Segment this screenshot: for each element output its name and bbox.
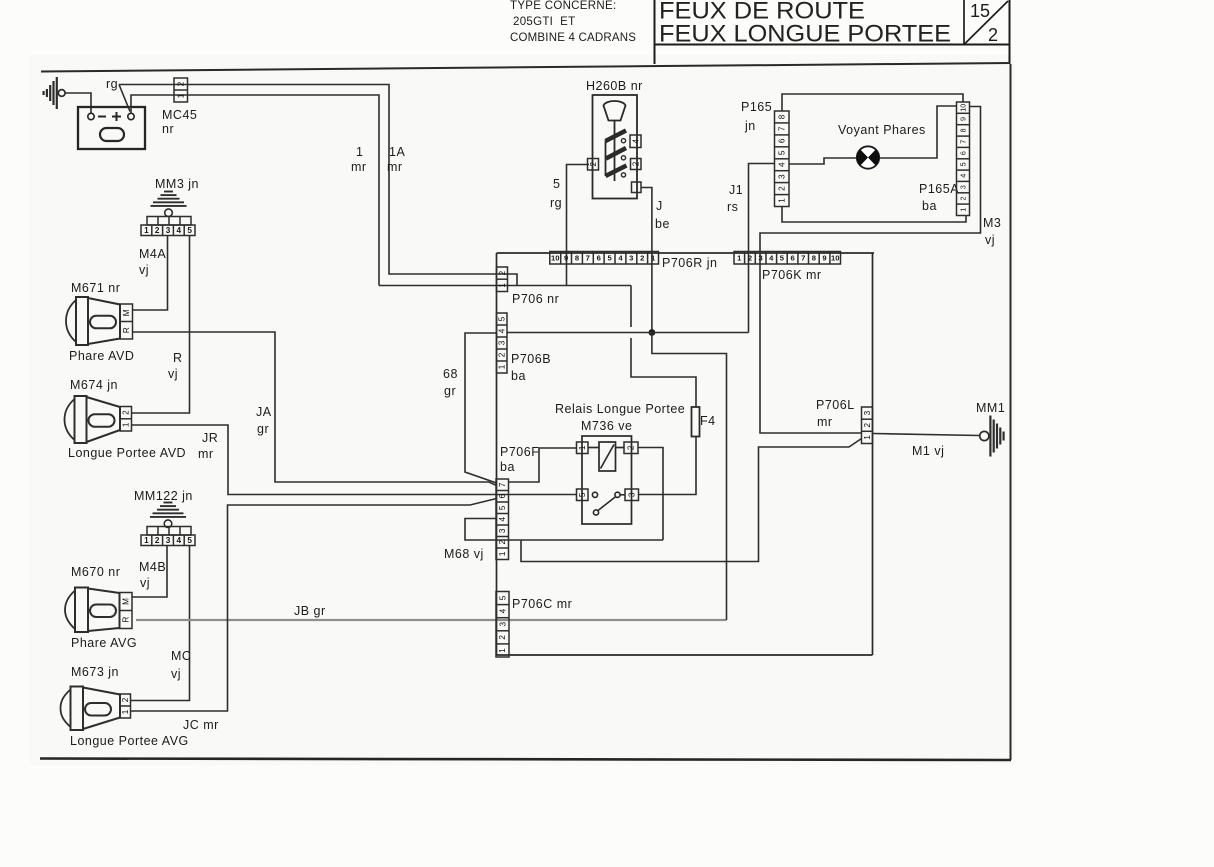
svg-text:7: 7 xyxy=(586,253,590,262)
svg-text:1: 1 xyxy=(578,445,587,450)
svg-text:gr: gr xyxy=(257,422,269,436)
svg-text:5: 5 xyxy=(187,536,192,545)
connector P706 nr xyxy=(497,267,508,292)
svg-text:6: 6 xyxy=(597,253,601,262)
svg-text:M1 vj: M1 vj xyxy=(912,444,944,458)
svg-text:2: 2 xyxy=(640,253,644,262)
wire M4A vj: MM3 pin3 to M671 M xyxy=(133,236,168,311)
svg-text:vj: vj xyxy=(140,576,150,590)
relay pin 3 xyxy=(625,489,639,501)
connector P165 jn xyxy=(775,111,790,207)
svg-text:4: 4 xyxy=(177,536,182,545)
svg-text:3: 3 xyxy=(498,340,507,345)
svg-text:2: 2 xyxy=(958,197,967,201)
headlight M673 Longue Portee AVG xyxy=(61,687,121,731)
headlight M671 Phare AVD connector xyxy=(120,304,133,339)
svg-text:3: 3 xyxy=(778,174,787,179)
svg-text:ba: ba xyxy=(500,460,515,474)
svg-text:M736 ve: M736 ve xyxy=(581,419,632,433)
connector P706L mr xyxy=(862,407,873,444)
headlight M671 Phare AVD xyxy=(66,297,120,345)
svg-text:2: 2 xyxy=(748,253,752,262)
svg-text:8: 8 xyxy=(575,253,579,262)
svg-text:P706K mr: P706K mr xyxy=(762,268,822,282)
svg-text:4: 4 xyxy=(631,138,640,143)
svg-text:Longue Portee AVD: Longue Portee AVD xyxy=(68,446,186,460)
svg-text:mr: mr xyxy=(387,160,403,174)
battery xyxy=(78,107,145,149)
svg-text:6: 6 xyxy=(958,151,967,155)
wire M3 vj: P165A pin10 to P706K pin3 to P706L xyxy=(760,107,981,434)
svg-text:H260B nr: H260B nr xyxy=(586,79,643,93)
svg-text:3: 3 xyxy=(166,226,171,235)
connector MM3 pin row xyxy=(141,225,195,236)
svg-text:9: 9 xyxy=(822,253,826,262)
svg-text:M: M xyxy=(122,309,131,316)
svg-text:MC: MC xyxy=(171,649,191,663)
svg-text:2: 2 xyxy=(632,161,641,166)
svg-text:M4B: M4B xyxy=(139,560,166,574)
svg-text:ba: ba xyxy=(511,369,526,383)
wire 1A mr inside box down to F4 xyxy=(630,286,632,328)
svg-text:2: 2 xyxy=(778,186,787,191)
svg-text:2: 2 xyxy=(589,161,598,166)
svg-text:5: 5 xyxy=(498,595,507,600)
svg-text:mr: mr xyxy=(817,415,833,429)
headlight M674 Longue Portee AVD connector xyxy=(120,407,132,432)
connector P706F ba xyxy=(496,479,509,560)
wire M1 vj: P706L to MM1 ground xyxy=(873,434,980,436)
wire 5 rg: H260B pin2 to P706R pin9 xyxy=(567,165,590,286)
fuse F4 xyxy=(692,407,700,437)
svg-text:M670 nr: M670 nr xyxy=(71,565,120,579)
svg-text:vj: vj xyxy=(171,667,181,681)
svg-text:2: 2 xyxy=(498,539,507,544)
wire P165 pin1 to P165A pin1 bottom link xyxy=(782,207,966,223)
frame bottom edge xyxy=(40,759,1011,761)
wire MC vj: MM122 pin5 to M673 pin2 xyxy=(131,546,190,701)
wire M68 vj stub on P706F pins 4-2 xyxy=(465,519,663,541)
svg-text:8: 8 xyxy=(812,253,816,262)
svg-text:7: 7 xyxy=(959,140,968,144)
svg-text:TYPE CONCERNE:: TYPE CONCERNE: xyxy=(510,0,616,12)
svg-text:4: 4 xyxy=(498,516,507,521)
connector MM122 upper row xyxy=(147,527,191,536)
svg-text:1: 1 xyxy=(177,93,186,98)
wire rg/1A mr: battery feed via MC45 pin2 xyxy=(119,85,517,286)
svg-text:Voyant Phares: Voyant Phares xyxy=(838,123,926,137)
svg-text:68: 68 xyxy=(443,367,458,381)
svg-text:10: 10 xyxy=(958,104,967,112)
svg-text:4: 4 xyxy=(498,328,507,333)
svg-text:rg: rg xyxy=(106,77,118,91)
wire JC mr: M673 pin1 to P706F pin5 xyxy=(131,499,497,712)
svg-text:10: 10 xyxy=(831,253,839,262)
svg-text:2: 2 xyxy=(177,81,186,86)
svg-text:5: 5 xyxy=(187,226,192,235)
svg-text:1: 1 xyxy=(122,422,131,427)
svg-text:1: 1 xyxy=(959,208,968,212)
svg-text:1: 1 xyxy=(498,648,507,653)
svg-text:6: 6 xyxy=(778,138,787,143)
svg-text:vj: vj xyxy=(985,233,995,247)
splice symbol MM3 xyxy=(151,192,187,217)
ground chassis top-left (battery) xyxy=(44,77,66,109)
svg-text:M68 vj: M68 vj xyxy=(444,547,484,561)
wire F4 to relay pin3 xyxy=(639,437,697,495)
wire R vj: MM3 pin5 to M674 pin2 xyxy=(132,236,190,414)
wire JB gr: M670 R to P706C pin3 xyxy=(136,619,727,621)
headlight M670 Phare AVG xyxy=(65,588,120,633)
connector P706C mr xyxy=(496,592,509,658)
wire P165 pin8 to P165A pin10 top link xyxy=(782,94,963,111)
svg-text:2: 2 xyxy=(155,226,160,235)
svg-text:4: 4 xyxy=(958,174,967,178)
wire node horizontal to P706B pin4 xyxy=(507,332,749,334)
svg-text:MM122 jn: MM122 jn xyxy=(134,489,193,503)
svg-text:JR: JR xyxy=(202,431,218,445)
svg-text:P706R jn: P706R jn xyxy=(662,256,717,270)
svg-text:M4A: M4A xyxy=(139,247,166,261)
svg-text:rg: rg xyxy=(550,196,562,210)
H260B pin 4 (right top) xyxy=(630,135,641,148)
svg-text:2: 2 xyxy=(863,422,872,427)
wire J1 rs: P165 pin4 to P706K pin2 to node line xyxy=(749,164,775,333)
svg-text:rs: rs xyxy=(727,200,738,214)
headlight M670 Phare AVG connector xyxy=(120,593,133,629)
svg-text:R: R xyxy=(122,616,131,622)
connector P706K mr xyxy=(734,252,841,265)
wire rg diagonal from battery plus xyxy=(119,85,130,112)
headlight M674 Longue Portee AVD xyxy=(65,396,121,443)
svg-text:M: M xyxy=(122,598,131,605)
connector P165A ba xyxy=(957,102,970,216)
relay pin 1 xyxy=(577,442,589,454)
wire ground to battery minus xyxy=(65,93,91,114)
svg-text:mr: mr xyxy=(351,160,367,174)
svg-text:JA: JA xyxy=(256,405,272,419)
svg-text:8: 8 xyxy=(958,128,967,132)
svg-text:MM3 jn: MM3 jn xyxy=(155,177,199,191)
svg-text:3: 3 xyxy=(166,536,171,545)
relay pin 2 xyxy=(624,442,638,454)
svg-text:4: 4 xyxy=(177,226,182,235)
svg-text:1: 1 xyxy=(144,226,149,235)
junction node dot xyxy=(649,329,656,336)
svg-text:R: R xyxy=(122,327,131,333)
svg-text:2: 2 xyxy=(498,352,507,357)
svg-text:9: 9 xyxy=(959,117,968,121)
svg-text:7: 7 xyxy=(498,482,507,487)
svg-text:P706 nr: P706 nr xyxy=(512,292,559,306)
wire 1A mr hop continuation to F4 xyxy=(631,338,696,407)
svg-text:3: 3 xyxy=(758,253,762,262)
svg-text:3: 3 xyxy=(498,621,507,626)
svg-text:5: 5 xyxy=(553,177,560,191)
indicator lamp Voyant Phares xyxy=(857,146,880,168)
svg-text:3: 3 xyxy=(629,253,633,262)
svg-text:6: 6 xyxy=(790,253,794,262)
svg-text:5: 5 xyxy=(778,150,787,155)
svg-text:2: 2 xyxy=(498,270,507,275)
svg-text:P706L: P706L xyxy=(816,398,855,412)
svg-text:5: 5 xyxy=(498,505,507,510)
svg-text:Longue Portee AVG: Longue Portee AVG xyxy=(70,734,189,748)
connector P706B ba xyxy=(497,313,508,373)
frame top edge xyxy=(41,63,1010,72)
wire voyant left xyxy=(789,158,857,164)
headlight M673 Longue Portee AVG connector xyxy=(120,694,131,718)
svg-text:2: 2 xyxy=(627,445,636,450)
frame right edge xyxy=(1010,64,1012,760)
svg-text:2: 2 xyxy=(155,536,160,545)
svg-text:7: 7 xyxy=(778,126,787,131)
commodo switch H260B xyxy=(593,95,638,199)
svg-text:6: 6 xyxy=(498,493,507,498)
svg-text:2: 2 xyxy=(122,410,131,415)
H260B pin 2 (left) xyxy=(588,159,599,171)
wire node run y285 into P706 nr pins (1A mr continuation) xyxy=(379,285,631,287)
svg-text:1: 1 xyxy=(121,709,130,714)
wire JR mr: M674 pin1 to P706F pin6 and relay pin5 xyxy=(132,425,577,495)
svg-text:2: 2 xyxy=(498,635,507,640)
svg-text:1: 1 xyxy=(863,435,872,440)
svg-text:5: 5 xyxy=(959,162,968,166)
svg-text:J: J xyxy=(656,199,663,213)
svg-text:COMBINE 4 CADRANS: COMBINE 4 CADRANS xyxy=(510,32,636,44)
svg-text:nr: nr xyxy=(162,122,174,136)
svg-text:Relais Longue Portee: Relais Longue Portee xyxy=(555,402,685,416)
svg-text:9: 9 xyxy=(564,253,568,262)
svg-text:M674 jn: M674 jn xyxy=(70,378,118,392)
connector MC45 nr xyxy=(174,78,188,102)
relay M736 outline xyxy=(582,436,632,524)
svg-text:P706C mr: P706C mr xyxy=(512,597,572,611)
svg-text:1: 1 xyxy=(498,364,507,369)
connector MM122 pin row xyxy=(141,535,195,546)
svg-text:mr: mr xyxy=(198,447,214,461)
svg-text:1: 1 xyxy=(144,536,149,545)
svg-text:3: 3 xyxy=(863,410,872,415)
svg-text:1: 1 xyxy=(778,198,787,203)
svg-text:gr: gr xyxy=(444,384,456,398)
svg-text:10: 10 xyxy=(551,253,559,262)
svg-text:1: 1 xyxy=(356,145,363,159)
wire relay pin2 drop xyxy=(638,448,663,541)
wire J be: H260B bottom pin to P706R pin1 and node xyxy=(641,188,652,333)
svg-text:J1: J1 xyxy=(729,183,743,197)
svg-text:2: 2 xyxy=(988,25,998,45)
connector MM3 upper row xyxy=(147,217,191,226)
wire node down to JB junction xyxy=(652,333,727,621)
H260B pin 2 (right middle) xyxy=(631,159,642,170)
svg-text:7: 7 xyxy=(801,253,805,262)
svg-text:1: 1 xyxy=(498,551,507,556)
svg-text:1A: 1A xyxy=(389,145,405,159)
svg-text:205GTI ET: 205GTI ET xyxy=(513,16,575,28)
svg-text:jn: jn xyxy=(744,119,756,133)
title block frame xyxy=(654,0,1010,64)
relay switch contacts xyxy=(592,492,625,515)
wire P706F pin2 branch to P706L pin1 xyxy=(521,439,862,562)
svg-text:15: 15 xyxy=(970,1,990,21)
svg-text:Phare AVD: Phare AVD xyxy=(69,349,134,363)
svg-text:MM1: MM1 xyxy=(976,401,1005,415)
svg-text:MC45: MC45 xyxy=(162,108,197,122)
svg-text:P706F: P706F xyxy=(500,445,539,459)
svg-text:R: R xyxy=(173,351,183,365)
svg-text:ba: ba xyxy=(922,199,937,213)
connector P706R jn xyxy=(550,252,659,265)
svg-text:JB gr: JB gr xyxy=(294,604,326,618)
svg-text:M671 nr: M671 nr xyxy=(71,281,120,295)
svg-text:3: 3 xyxy=(628,492,637,497)
svg-text:2: 2 xyxy=(121,697,130,702)
svg-text:Phare AVG: Phare AVG xyxy=(71,636,137,650)
svg-text:3: 3 xyxy=(959,185,968,189)
ground MM1 xyxy=(980,416,1004,457)
svg-text:JC mr: JC mr xyxy=(183,718,219,732)
svg-text:be: be xyxy=(655,217,670,231)
wire M4B vj: MM122 pin3 to M670 M xyxy=(132,546,167,598)
svg-text:4: 4 xyxy=(498,608,507,613)
svg-text:5: 5 xyxy=(498,316,507,321)
wire voyant right xyxy=(879,106,956,158)
relay pin 5 xyxy=(577,489,589,501)
svg-text:P165: P165 xyxy=(741,100,772,114)
wire 68 gr: P706B pin4 to P706F pin7 xyxy=(465,333,497,483)
svg-text:P165A: P165A xyxy=(919,182,959,196)
svg-text:FEUX LONGUE PORTEE: FEUX LONGUE PORTEE xyxy=(659,21,951,48)
svg-text:F4: F4 xyxy=(700,414,716,428)
splice symbol MM122 xyxy=(150,503,186,528)
H260B bottom pin xyxy=(632,182,642,193)
central box outline xyxy=(497,253,875,655)
wire 1 mr: battery plus feed xyxy=(131,95,379,286)
svg-text:1: 1 xyxy=(498,283,507,288)
relay coil xyxy=(589,442,625,471)
svg-text:8: 8 xyxy=(778,114,787,119)
svg-text:M673 jn: M673 jn xyxy=(71,665,119,679)
wire JA gr: M671 R to P706F pin7 xyxy=(133,332,497,486)
svg-text:5: 5 xyxy=(578,492,587,497)
wire relay pin1 to P706F pin7 xyxy=(509,448,577,482)
svg-text:P706B: P706B xyxy=(511,352,551,366)
svg-text:4: 4 xyxy=(778,162,787,167)
svg-text:vj: vj xyxy=(139,263,149,277)
svg-text:M3: M3 xyxy=(983,216,1001,230)
svg-text:3: 3 xyxy=(498,528,507,533)
svg-text:vj: vj xyxy=(168,367,178,381)
